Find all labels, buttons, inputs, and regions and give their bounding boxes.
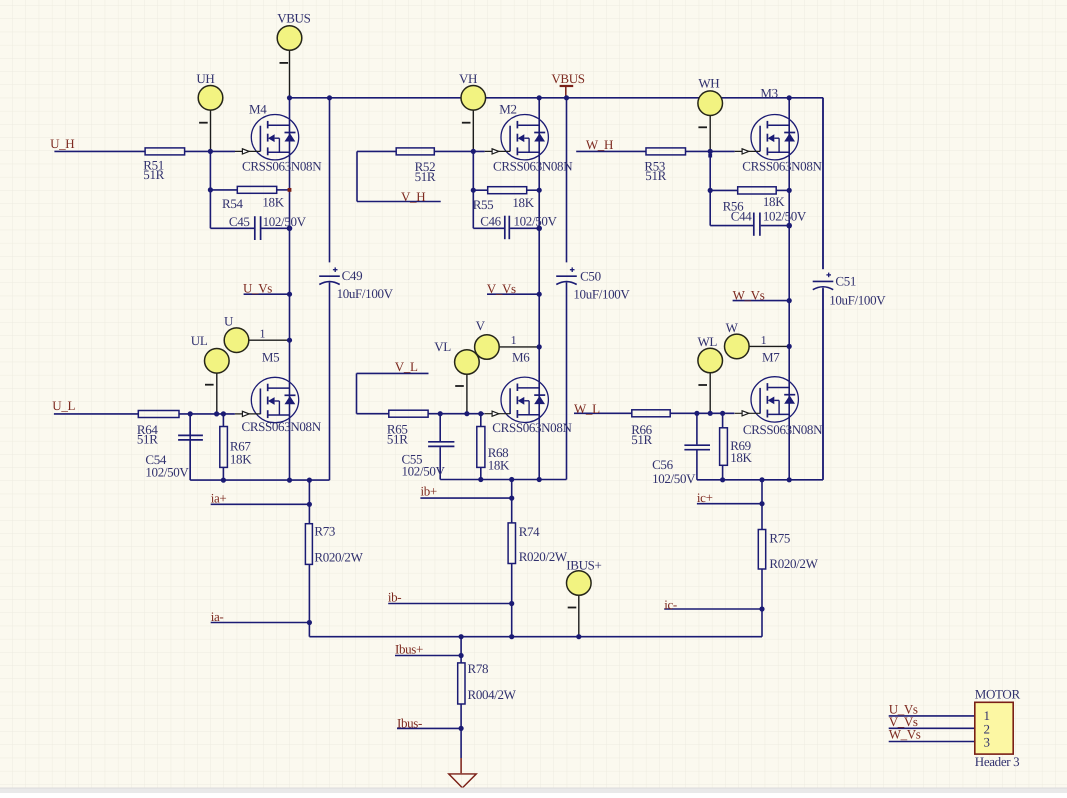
svg-text:M5: M5 <box>262 350 279 365</box>
svg-text:IBUS+: IBUS+ <box>566 558 601 573</box>
svg-text:C51: C51 <box>835 273 856 288</box>
svg-text:Header 3: Header 3 <box>975 754 1019 769</box>
svg-text:CRSS063N08N: CRSS063N08N <box>242 158 322 173</box>
svg-text:51R: 51R <box>387 431 408 446</box>
svg-text:ia+: ia+ <box>211 490 227 505</box>
svg-text:CRSS063N08N: CRSS063N08N <box>242 419 322 434</box>
svg-text:102/50V: 102/50V <box>263 214 307 229</box>
svg-text:V_H: V_H <box>401 189 425 204</box>
svg-text:3: 3 <box>984 734 990 749</box>
svg-text:R74: R74 <box>519 524 540 539</box>
svg-text:C49: C49 <box>342 268 363 283</box>
svg-text:R020/2W: R020/2W <box>519 549 568 564</box>
svg-text:Ibus-: Ibus- <box>397 715 422 730</box>
svg-text:U: U <box>224 313 234 328</box>
svg-text:R54: R54 <box>222 196 243 211</box>
svg-text:C46: C46 <box>480 214 501 229</box>
svg-text:1: 1 <box>260 327 266 341</box>
svg-text:C45: C45 <box>229 214 250 229</box>
svg-text:W_H: W_H <box>586 137 613 152</box>
svg-text:1: 1 <box>761 333 767 347</box>
svg-text:U_L: U_L <box>52 398 75 413</box>
svg-text:ib-: ib- <box>388 590 401 605</box>
svg-text:51R: 51R <box>645 168 666 183</box>
svg-text:M2: M2 <box>499 101 516 116</box>
svg-text:10uF/100V: 10uF/100V <box>337 286 394 301</box>
svg-text:R004/2W: R004/2W <box>468 687 517 702</box>
svg-text:R78: R78 <box>468 661 489 676</box>
svg-text:W_L: W_L <box>574 401 600 416</box>
svg-text:18K: 18K <box>262 195 284 210</box>
svg-text:M6: M6 <box>512 350 530 365</box>
svg-text:W_Vs: W_Vs <box>733 288 765 303</box>
svg-text:18K: 18K <box>488 457 510 472</box>
svg-text:CRSS063N08N: CRSS063N08N <box>743 422 823 437</box>
svg-text:UH: UH <box>196 71 214 86</box>
svg-text:R020/2W: R020/2W <box>314 549 363 564</box>
svg-text:18K: 18K <box>763 194 785 209</box>
svg-text:VBUS: VBUS <box>277 10 310 25</box>
svg-text:ic-: ic- <box>664 597 677 612</box>
svg-text:CRSS063N08N: CRSS063N08N <box>742 158 822 173</box>
svg-text:MOTOR: MOTOR <box>975 687 1021 702</box>
svg-text:Ibus+: Ibus+ <box>395 641 423 656</box>
svg-text:102/50V: 102/50V <box>514 214 558 229</box>
svg-text:102/50V: 102/50V <box>145 464 189 479</box>
svg-text:R020/2W: R020/2W <box>769 556 818 571</box>
svg-text:U_Vs: U_Vs <box>243 281 272 296</box>
svg-text:W_Vs: W_Vs <box>889 727 921 742</box>
svg-text:102/50V: 102/50V <box>763 209 807 224</box>
svg-text:10uF/100V: 10uF/100V <box>573 286 630 301</box>
svg-text:18K: 18K <box>230 451 252 466</box>
svg-text:WH: WH <box>698 75 719 90</box>
svg-text:102/50V: 102/50V <box>402 464 446 479</box>
svg-text:ib+: ib+ <box>421 484 437 499</box>
svg-text:M3: M3 <box>760 86 777 101</box>
svg-text:VL: VL <box>434 339 451 354</box>
svg-text:CRSS063N08N: CRSS063N08N <box>493 158 573 173</box>
svg-text:18K: 18K <box>512 195 534 210</box>
svg-text:C44: C44 <box>731 209 752 224</box>
svg-text:51R: 51R <box>631 432 652 447</box>
svg-text:M4: M4 <box>249 101 267 116</box>
svg-text:VH: VH <box>459 71 477 86</box>
svg-text:ia-: ia- <box>211 609 224 624</box>
svg-text:UL: UL <box>191 333 208 348</box>
svg-text:1: 1 <box>511 333 517 347</box>
svg-text:V_L: V_L <box>395 359 418 374</box>
svg-text:51R: 51R <box>137 431 158 446</box>
svg-text:V: V <box>476 318 486 333</box>
svg-text:W: W <box>726 320 739 335</box>
svg-text:R75: R75 <box>769 530 790 545</box>
svg-text:18K: 18K <box>730 450 752 465</box>
svg-text:51R: 51R <box>143 167 164 182</box>
svg-text:V_Vs: V_Vs <box>487 281 516 296</box>
svg-text:CRSS063N08N: CRSS063N08N <box>492 420 572 435</box>
svg-text:10uF/100V: 10uF/100V <box>829 292 886 307</box>
svg-text:C50: C50 <box>580 268 601 283</box>
svg-text:ic+: ic+ <box>697 490 713 505</box>
svg-text:102/50V: 102/50V <box>652 471 696 486</box>
svg-text:R73: R73 <box>314 524 335 539</box>
svg-text:VBUS: VBUS <box>551 71 584 86</box>
svg-text:51R: 51R <box>415 169 436 184</box>
svg-text:R55: R55 <box>473 197 494 212</box>
svg-text:WL: WL <box>698 334 718 349</box>
svg-text:U_H: U_H <box>50 136 74 151</box>
svg-text:M7: M7 <box>762 350 780 365</box>
